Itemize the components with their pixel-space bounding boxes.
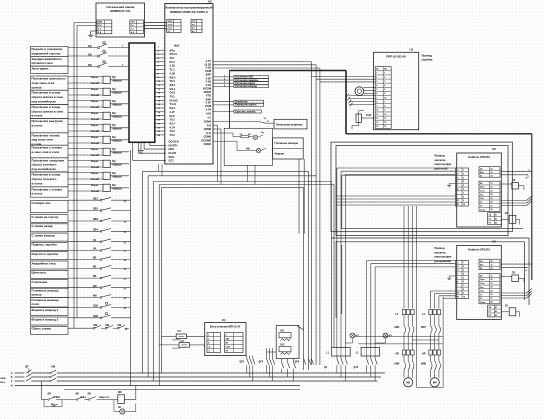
svg-text:OMRON CPM2 AE COD5-A: OMRON CPM2 AE COD5-A <box>170 10 209 14</box>
svg-text:КВ: КВ <box>93 275 97 278</box>
svg-text:Т0.2: Т0.2 <box>170 129 176 133</box>
svg-text:3: 3 <box>463 177 464 179</box>
svg-text:С замка на стрелу: С замка на стрелу <box>32 215 59 219</box>
svg-text:24: 24 <box>491 193 493 196</box>
svg-text:L1: L1 <box>456 170 458 172</box>
svg-text:Пуск: Пуск <box>480 187 484 189</box>
svg-text:SБ3: SБ3 <box>93 218 98 221</box>
svg-text:СОМ9: СОМ9 <box>204 135 212 139</box>
svg-text:Р1: Р1 <box>489 311 491 313</box>
svg-text:перегородки: перегородки <box>434 256 451 259</box>
svg-text:2: 2 <box>463 266 464 268</box>
svg-text:ОС1: ОС1 <box>169 159 175 162</box>
svg-text:СОМ: СОМ <box>205 69 211 73</box>
svg-text:13: 13 <box>384 126 386 128</box>
svg-text:О4.2: О4.2 <box>170 91 176 95</box>
svg-text:31: 31 <box>491 264 493 266</box>
svg-text:8: 8 <box>376 101 377 103</box>
svg-text:4.1В: 4.1В <box>170 71 176 75</box>
svg-text:Авария: Авария <box>275 152 285 156</box>
svg-text:Станция осв.: Станция осв. <box>32 201 52 205</box>
svg-text:Положение с отлива: Положение с отлива <box>32 146 63 150</box>
svg-text:2: 2 <box>226 334 227 336</box>
svg-text:скребка: скребка <box>422 57 433 61</box>
svg-text:Н1.СВ: Н1.СВ <box>169 152 177 155</box>
svg-text:Пуск: Пуск <box>480 279 484 281</box>
svg-text:A2: A2 <box>208 0 212 4</box>
svg-text:Норм.: Норм. <box>91 76 99 79</box>
svg-text:1: 1 <box>384 73 385 75</box>
svg-text:С1: С1 <box>222 318 226 322</box>
svg-text:Синий: Синий <box>91 106 99 109</box>
svg-text:3 А: 3 А <box>98 31 102 34</box>
svg-text:в лотке: в лотке <box>32 192 43 196</box>
svg-text:Ф1.1: Ф1.1 <box>170 106 176 110</box>
svg-text:С Вкл: С Вкл <box>54 397 61 399</box>
svg-text:Синий: Синий <box>91 118 99 121</box>
svg-text:7: 7 <box>384 101 385 103</box>
svg-text:Норм.: Норм. <box>91 136 99 139</box>
svg-text:SБ2: SБ2 <box>93 208 98 211</box>
svg-text:Положение отлива: Положение отлива <box>32 133 60 137</box>
svg-text:Т1: Т1 <box>480 202 482 204</box>
svg-text:КМ: КМ <box>118 391 121 394</box>
svg-text:КМ5: КМ5 <box>395 326 400 329</box>
svg-text:10: 10 <box>384 114 386 116</box>
svg-text:HR: HR <box>422 353 426 356</box>
svg-text:22: 22 <box>491 187 493 189</box>
svg-text:SА: SА <box>93 248 97 251</box>
svg-text:Т6.4: Т6.4 <box>170 79 176 83</box>
svg-text:М3: М3 <box>406 381 410 385</box>
svg-text:Авар ост.: Авар ост. <box>99 396 110 399</box>
svg-text:КМ7: КМ7 <box>421 326 426 329</box>
svg-text:под конвейером: под конвейером <box>32 167 57 171</box>
svg-text:КВ: КВ <box>93 266 97 269</box>
svg-text:Аварийное откл.: Аварийное откл. <box>32 261 57 265</box>
svg-text:41: 41 <box>495 306 497 309</box>
svg-text:Синий: Синий <box>91 154 99 157</box>
svg-text:Н.О: Н.О <box>206 131 211 135</box>
svg-text:сброса солевого: сброса солевого <box>32 163 57 167</box>
svg-text:Перемычка рабоч.: Перемычка рабоч. <box>235 104 257 107</box>
svg-text:4.1Т: 4.1Т <box>170 110 176 114</box>
svg-text:4.1Р: 4.1Р <box>206 76 212 80</box>
svg-text:Шнек вкл.: Шнек вкл. <box>32 271 47 275</box>
svg-text:21: 21 <box>491 183 493 185</box>
svg-text:СОМ4: СОМ4 <box>204 90 212 94</box>
svg-text:Т1.1: Т1.1 <box>170 68 176 72</box>
svg-text:L3: L3 <box>456 177 458 179</box>
svg-text:Ф1.7: Ф1.7 <box>170 121 176 125</box>
svg-text:С замка вперед: С замка вперед <box>32 233 55 237</box>
svg-text:26: 26 <box>491 202 493 204</box>
svg-text:Положение в конце: Положение в конце <box>32 91 61 95</box>
svg-text:32: 32 <box>491 175 493 177</box>
svg-text:Тобщ: Тобщ <box>480 209 485 211</box>
svg-text:НСОМ: НСОМ <box>203 87 211 91</box>
svg-text:Синий: Синий <box>91 82 99 85</box>
svg-text:ПЗ: ПЗ <box>512 272 516 275</box>
svg-text:3: 3 <box>376 81 377 83</box>
svg-text:1: 1 <box>463 170 464 172</box>
svg-text:ПЛР-10-021-00: ПЛР-10-021-00 <box>386 55 406 59</box>
svg-text:в зоне огня и солн: в зоне огня и солн <box>32 150 60 154</box>
svg-text:НВ: НВ <box>246 148 250 151</box>
svg-text:4.1О: 4.1О <box>205 83 211 87</box>
svg-text:КМ6: КМ6 <box>395 363 400 366</box>
svg-text:6: 6 <box>463 281 464 283</box>
svg-text:(резервный): (резервный) <box>434 259 451 263</box>
svg-text:4.1Т: 4.1Т <box>206 59 212 63</box>
svg-text:10: 10 <box>376 110 378 112</box>
svg-text:50Гц: 50Гц <box>0 382 6 384</box>
svg-text:YA2: YA2 <box>280 344 285 347</box>
svg-text:6: 6 <box>376 93 377 95</box>
svg-text:в лотке: в лотке <box>32 124 43 128</box>
svg-text:С вальцов: С вальцов <box>32 280 48 284</box>
svg-text:W: W <box>456 189 458 191</box>
svg-text:31: 31 <box>491 172 493 174</box>
svg-text:Ф4Р: Ф4Р <box>206 97 212 101</box>
svg-text:32: 32 <box>491 268 493 270</box>
svg-text:сброса шлюза в зоне: сброса шлюза в зоне <box>32 109 64 113</box>
svg-text:3: 3 <box>463 270 464 272</box>
svg-text:КМ: КМ <box>93 295 97 298</box>
svg-text:Ф0.4: Ф0.4 <box>170 75 176 79</box>
svg-text:00.01С: 00.01С <box>170 98 178 102</box>
svg-text:Синий: Синий <box>91 130 99 133</box>
svg-text:Норм.: Норм. <box>91 184 99 187</box>
svg-text:Подъем и опускание: Подъем и опускание <box>32 47 63 51</box>
svg-text:SВ: SВ <box>76 393 80 396</box>
svg-text:(4.1R: (4.1R <box>205 62 211 66</box>
svg-text:Спустить лопуби: Спустить лопуби <box>235 110 256 113</box>
svg-text:SB: SB <box>48 393 52 396</box>
svg-text:28: 28 <box>491 302 493 304</box>
svg-text:окна зоны огня: окна зоны огня <box>32 81 55 85</box>
svg-text:5: 5 <box>376 89 377 91</box>
svg-text:1РО: 1РО <box>131 22 135 24</box>
svg-text:над зоны огня: над зоны огня <box>32 138 54 142</box>
svg-text:Р2: Р2 <box>489 222 491 224</box>
svg-text:27: 27 <box>491 205 493 207</box>
svg-text:11: 11 <box>384 118 386 120</box>
svg-text:SБ4: SБ4 <box>93 228 98 231</box>
svg-text:Т10: Т10 <box>170 56 175 60</box>
svg-text:2 1А: 2 1А <box>168 27 173 30</box>
svg-text:7: 7 <box>463 193 464 195</box>
svg-text:4.1Ч: 4.1Ч <box>170 125 176 129</box>
svg-text:10: 10 <box>463 296 465 298</box>
svg-text:Опустить скребок: Опустить скребок <box>32 252 59 256</box>
svg-text:(рабочий): (рабочий) <box>434 167 447 171</box>
svg-text:1: 1 <box>376 73 377 75</box>
svg-text:SQ5: SQ5 <box>93 305 99 308</box>
svg-text:380В: 380В <box>0 378 6 380</box>
svg-text:9: 9 <box>463 200 464 202</box>
svg-text:Q13: Q13 <box>354 366 359 369</box>
svg-text:КМ: КМ <box>106 324 109 327</box>
svg-text:2: 2 <box>463 174 464 176</box>
svg-text:Т1: Т1 <box>480 294 482 296</box>
svg-text:SQ: SQ <box>88 53 92 56</box>
svg-text:QF4: QF4 <box>295 361 300 364</box>
svg-text:L2: L2 <box>456 174 458 176</box>
svg-text:2: 2 <box>376 77 377 79</box>
svg-text:Авто-идент.: Авто-идент. <box>32 67 50 71</box>
svg-text:13: 13 <box>376 122 378 124</box>
svg-text:L2: L2 <box>456 266 458 268</box>
svg-text:8: 8 <box>463 196 464 198</box>
svg-text:–: – <box>456 196 457 198</box>
svg-text:5: 5 <box>463 277 464 279</box>
svg-text:сброса шлюза в зоне: сброса шлюза в зоне <box>32 95 64 99</box>
svg-text:Ф6.1: Ф6.1 <box>170 83 176 87</box>
svg-text:ФТи: ФТи <box>170 48 176 52</box>
svg-text:Норм.: Норм. <box>91 112 99 115</box>
svg-text:U2: U2 <box>492 147 496 151</box>
svg-text:FU: FU <box>181 340 185 343</box>
svg-text:24: 24 <box>491 286 493 289</box>
svg-text:Ф4.1: Ф4.1 <box>170 87 176 91</box>
svg-text:42: 42 <box>495 310 497 313</box>
svg-text:Норм.: Норм. <box>91 148 99 151</box>
svg-text:Положение смещения: Положение смещения <box>32 158 65 162</box>
svg-text:Р.О: Р.О <box>207 123 211 127</box>
svg-text:М4: М4 <box>433 381 437 385</box>
svg-text:4: 4 <box>463 180 464 183</box>
svg-text:42: 42 <box>495 217 497 220</box>
svg-text:43: 43 <box>495 221 497 224</box>
svg-text:в лотке: в лотке <box>32 114 43 118</box>
svg-text:СОМ: СОМ <box>226 346 231 348</box>
svg-text:U1: U1 <box>410 48 414 52</box>
svg-text:Т2: Т2 <box>480 206 482 208</box>
svg-text:5: 5 <box>463 185 464 187</box>
svg-text:23: 23 <box>491 190 493 192</box>
svg-text:У1О: У1О <box>98 25 102 27</box>
svg-text:КВ: КВ <box>93 257 97 260</box>
svg-text:SQ: SQ <box>88 64 92 67</box>
svg-text:21: 21 <box>491 275 493 277</box>
svg-text:8: 8 <box>463 289 464 291</box>
svg-text:QF: QF <box>25 366 29 369</box>
svg-text:9: 9 <box>463 293 464 295</box>
svg-text:С замка назад: С замка назад <box>32 224 53 228</box>
svg-text:Т0.1: Т0.1 <box>170 95 176 99</box>
svg-text:23: 23 <box>491 283 493 285</box>
svg-text:2: 2 <box>384 77 385 79</box>
svg-text:30: 30 <box>491 168 493 170</box>
svg-text:4.1Р: 4.1Р <box>206 101 212 105</box>
svg-text:Т0.1: Т0.1 <box>170 133 176 137</box>
svg-text:OMRON R Y21: OMRON R Y21 <box>110 9 131 13</box>
svg-text:Положение в конце: Положение в конце <box>32 173 61 177</box>
svg-text:12: 12 <box>384 122 386 124</box>
svg-text:Синий: Синий <box>91 190 99 193</box>
svg-text:Вы: Вы <box>384 69 387 71</box>
svg-text:питания и вкл.: питания и вкл. <box>32 61 54 65</box>
svg-text:4.10: 4.10 <box>206 112 212 116</box>
svg-text:00.4: 00.4 <box>170 60 176 64</box>
svg-text:Синий: Синий <box>91 178 99 181</box>
svg-text:Синий: Синий <box>91 166 99 169</box>
svg-text:соли: соли <box>32 302 39 306</box>
svg-text:04.0: 04.0 <box>170 114 176 118</box>
svg-text:Привод: Привод <box>434 154 444 158</box>
svg-text:Остановка вперед: Остановка вперед <box>235 85 257 88</box>
svg-text:22: 22 <box>491 279 493 281</box>
svg-text:5: 5 <box>384 89 385 91</box>
svg-text:Привод: Привод <box>434 246 444 250</box>
svg-text:ФТ1.0: ФТ1.0 <box>170 52 178 56</box>
svg-text:наклона: наклона <box>434 251 445 254</box>
svg-text:25: 25 <box>491 290 493 292</box>
svg-text:Форма и вперед 2: Форма и вперед 2 <box>32 317 59 321</box>
svg-text:наклона: наклона <box>434 159 445 162</box>
svg-text:Норм.: Норм. <box>91 124 99 127</box>
svg-text:1: 1 <box>208 334 209 336</box>
svg-text:Ф4Р: Ф4Р <box>206 73 212 77</box>
svg-text:1S: 1S <box>93 239 96 242</box>
svg-text:НL: НL <box>118 406 122 409</box>
svg-text:Поднять скребок: Поднять скребок <box>32 243 58 247</box>
svg-text:6: 6 <box>463 189 464 191</box>
svg-text:Положение в конце: Положение в конце <box>32 105 61 109</box>
svg-text:перегородки: перегородки <box>434 163 451 166</box>
svg-text:КМ: КМ <box>93 285 97 288</box>
svg-text:Unidrive SP1201: Unidrive SP1201 <box>468 248 490 252</box>
svg-text:Р1: Р1 <box>489 218 491 220</box>
svg-text:под конвейером: под конвейером <box>32 100 57 104</box>
svg-text:6: 6 <box>384 93 385 95</box>
svg-text:Норм.: Норм. <box>91 160 99 163</box>
svg-text:U3: U3 <box>492 239 496 243</box>
svg-text:КМ8: КМ8 <box>421 363 426 366</box>
svg-text:Сигнальная лампа: Сигнальная лампа <box>106 5 134 9</box>
svg-text:КУ: КУ <box>505 212 509 215</box>
svg-text:28: 28 <box>491 209 493 211</box>
svg-text:4.1Б: 4.1Б <box>170 64 176 68</box>
svg-text:НРО: НРО <box>169 148 174 151</box>
svg-text:ФиС: ФиС <box>174 43 180 47</box>
svg-text:СОМ4: СОМ4 <box>204 120 212 124</box>
svg-text:25: 25 <box>491 198 493 200</box>
svg-text:О вн: О вн <box>81 397 87 399</box>
svg-text:HR: HR <box>396 353 400 356</box>
svg-text:шлюза: шлюза <box>32 85 42 89</box>
svg-text:ПЗ: ПЗ <box>512 179 516 182</box>
svg-text:4.1Ч: 4.1Ч <box>206 108 212 112</box>
svg-text:КМ: КМ <box>52 366 56 369</box>
svg-text:FU8: FU8 <box>366 113 371 117</box>
svg-text:SQ6: SQ6 <box>93 315 99 318</box>
svg-text:Зарядка аварийного: Зарядка аварийного <box>32 57 63 61</box>
svg-text:Головные вальцы: Головные вальцы <box>275 141 299 145</box>
svg-text:4: 4 <box>463 273 464 276</box>
svg-text:QF3: QF3 <box>259 361 264 364</box>
svg-text:4.1Н: 4.1Н <box>206 66 212 70</box>
svg-text:9: 9 <box>384 110 385 112</box>
svg-text:4.1: 4.1 <box>207 116 211 120</box>
svg-text:QF2: QF2 <box>240 361 245 364</box>
svg-text:YA1: YA1 <box>280 330 285 333</box>
svg-text:7: 7 <box>376 97 377 99</box>
svg-text:9: 9 <box>376 106 377 108</box>
svg-text:Т0.1: Т0.1 <box>170 118 176 122</box>
svg-text:Положение с отлива: Положение с отлива <box>32 187 63 191</box>
svg-text:SБ1: SБ1 <box>93 197 98 200</box>
svg-text:Синий: Синий <box>91 94 99 97</box>
svg-text:Синий: Синий <box>91 142 99 145</box>
svg-text:WАС: WАС <box>169 156 175 159</box>
svg-text:4ТО: 4ТО <box>206 94 211 98</box>
svg-text:–: – <box>456 289 457 291</box>
svg-text:FU: FU <box>178 330 182 333</box>
svg-text:11: 11 <box>376 114 378 116</box>
svg-text:КУ: КУ <box>505 305 509 308</box>
svg-text:Сброс схемы: Сброс схемы <box>32 327 52 331</box>
svg-text:НСОТН: НСОТН <box>169 144 178 147</box>
svg-text:Unidrive SP1201: Unidrive SP1201 <box>468 155 490 159</box>
svg-text:Т4.11: Т4.11 <box>170 102 177 106</box>
svg-text:Положение выгрузки: Положение выгрузки <box>32 119 64 123</box>
svg-text:12: 12 <box>376 118 378 120</box>
svg-text:КМ: КМ <box>94 324 97 327</box>
svg-text:шлюза: шлюза <box>32 293 42 297</box>
svg-text:3: 3 <box>384 81 385 83</box>
svg-text:подвижной стрелы: подвижной стрелы <box>32 51 61 55</box>
svg-text:L1: L1 <box>456 262 458 264</box>
svg-text:ОО.ОСН: ОО.ОСН <box>169 141 179 144</box>
svg-text:7: 7 <box>463 285 464 287</box>
svg-text:Положение шлюзового: Положение шлюзового <box>32 77 67 81</box>
svg-text:SВ: SВ <box>88 393 92 396</box>
svg-text:Тобщ: Тобщ <box>480 302 485 304</box>
svg-text:Блок питания HDR-15-24: Блок питания HDR-15-24 <box>210 326 241 329</box>
svg-text:СОМ: СОМ <box>205 104 211 108</box>
svg-text:Р2: Р2 <box>489 315 491 317</box>
svg-text:Норм.: Норм. <box>91 172 99 175</box>
svg-text:Норм.: Норм. <box>91 88 99 91</box>
svg-text:СОМ8: СОМ8 <box>204 127 212 131</box>
svg-text:сброса солевого: сброса солевого <box>32 177 57 181</box>
svg-text:Т2: Т2 <box>480 298 482 300</box>
svg-text:4.1В: 4.1В <box>206 80 212 84</box>
svg-text:1: 1 <box>463 262 464 264</box>
svg-text:SQ: SQ <box>88 45 92 48</box>
svg-text:СОМ4: СОМ4 <box>204 142 212 146</box>
svg-text:КМ: КМ <box>118 324 121 327</box>
svg-text:Начальная привязка: Начальная привязка <box>276 122 303 126</box>
svg-text:4 А: 4 А <box>131 31 135 34</box>
svg-text:Форма и вперед 1: Форма и вперед 1 <box>32 308 59 312</box>
svg-text:8: 8 <box>384 106 385 108</box>
svg-text:27: 27 <box>491 298 493 300</box>
svg-text:L3: L3 <box>456 270 458 272</box>
svg-text:Норм.: Норм. <box>91 100 99 103</box>
svg-text:W: W <box>456 281 458 283</box>
svg-text:в лотке: в лотке <box>32 181 43 185</box>
svg-text:30: 30 <box>491 261 493 263</box>
svg-text:41: 41 <box>495 213 497 216</box>
svg-text:43: 43 <box>495 314 497 317</box>
svg-text:НСОМР: НСОМР <box>201 138 211 142</box>
svg-text:26: 26 <box>491 294 493 296</box>
svg-text:10: 10 <box>463 204 465 206</box>
